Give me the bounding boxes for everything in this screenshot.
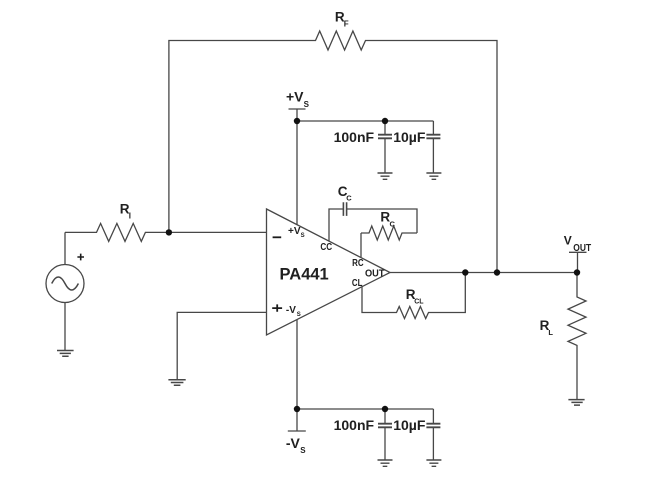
svg-text:10µF: 10µF	[393, 417, 426, 433]
svg-text:PA441: PA441	[280, 265, 329, 283]
svg-text:S: S	[300, 446, 306, 455]
svg-text:I: I	[129, 211, 131, 220]
svg-text:100nF: 100nF	[334, 129, 375, 145]
svg-text:OUT: OUT	[365, 269, 385, 280]
svg-text:C: C	[346, 193, 352, 202]
svg-text:RC: RC	[352, 258, 364, 269]
svg-text:CL: CL	[414, 299, 424, 306]
svg-text:10µF: 10µF	[393, 129, 426, 145]
svg-text:+V: +V	[286, 89, 304, 105]
svg-text:-V: -V	[286, 305, 296, 316]
svg-text:CL: CL	[352, 278, 363, 289]
svg-text:CC: CC	[320, 242, 332, 253]
svg-text:100nF: 100nF	[334, 417, 375, 433]
svg-text:S: S	[301, 233, 305, 239]
svg-text:S: S	[297, 312, 301, 318]
svg-text:C: C	[390, 220, 396, 229]
svg-text:S: S	[304, 100, 310, 109]
svg-text:L: L	[548, 328, 553, 337]
svg-text:OUT: OUT	[573, 243, 591, 254]
svg-text:+V: +V	[288, 226, 301, 237]
svg-text:V: V	[564, 234, 572, 248]
svg-text:-V: -V	[286, 435, 301, 451]
svg-text:F: F	[344, 19, 349, 28]
